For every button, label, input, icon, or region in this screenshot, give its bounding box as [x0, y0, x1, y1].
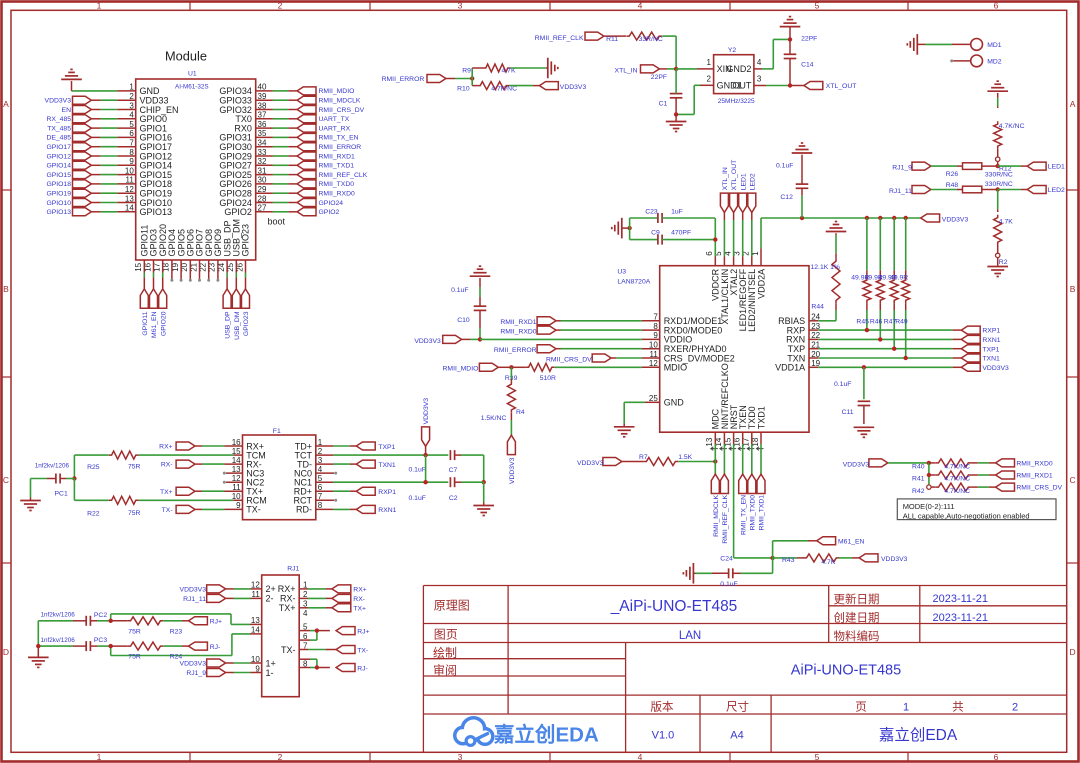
svg-text:4: 4 [757, 58, 762, 67]
wire (U1 pin 35) [256, 136, 297, 138]
svg-text:12.1K 1%: 12.1K 1% [811, 264, 840, 271]
svg-text:R24: R24 [170, 654, 183, 661]
svg-text:1: 1 [903, 702, 909, 714]
svg-text:C9: C9 [651, 230, 660, 237]
unconnected pin 22 (U1) [207, 260, 210, 282]
svg-text:Module: Module [165, 49, 207, 64]
svg-text:MD1: MD1 [987, 42, 1002, 49]
svg-text:0.1uF: 0.1uF [409, 495, 426, 502]
net flag RX+ [159, 442, 195, 451]
svg-text:C7: C7 [449, 467, 458, 474]
svg-text:0.1uF: 0.1uF [451, 287, 468, 294]
svg-text:C11: C11 [842, 409, 854, 416]
svg-text:GPIO13: GPIO13 [140, 207, 173, 217]
net flag GPIO10 [46, 199, 91, 207]
svg-text:VDD2A: VDD2A [756, 269, 766, 299]
wire (U1 pin 7) [91, 146, 135, 148]
resistor R25 75R [87, 451, 242, 471]
svg-text:R22: R22 [87, 511, 100, 518]
unconnected pin 20 (U1) [189, 260, 192, 282]
svg-text:4.7K/NC: 4.7K/NC [944, 476, 970, 483]
svg-text:0.1uF: 0.1uF [720, 581, 737, 588]
wire [734, 556, 775, 560]
wire (U1 pin 11) [91, 183, 135, 185]
svg-text:330R/NC: 330R/NC [985, 181, 1013, 188]
svg-text:VDD3V3: VDD3V3 [560, 84, 587, 91]
svg-text:2023-11-21: 2023-11-21 [933, 593, 988, 605]
svg-text:U1: U1 [188, 71, 197, 78]
svg-text:RX-: RX- [353, 596, 365, 603]
svg-text:13: 13 [705, 437, 714, 446]
unconnected pin 18 (U1) [170, 260, 173, 282]
IC U3 LAN8720A [617, 251, 820, 451]
svg-text:1.5K/NC: 1.5K/NC [481, 415, 507, 422]
net flag RMII_TXD0 [748, 474, 757, 530]
svg-text:RMII_RXD1: RMII_RXD1 [319, 153, 355, 160]
ground (C14 top) [780, 17, 801, 40]
wire [446, 68, 475, 86]
resistor R48 330R/NC [931, 181, 1013, 193]
svg-text:GND: GND [664, 398, 685, 408]
svg-text:RMII_TXD0: RMII_TXD0 [319, 181, 355, 188]
svg-text:1: 1 [97, 752, 102, 762]
svg-text:GPIO17: GPIO17 [46, 144, 71, 151]
wire (U1 pin 14) [91, 211, 135, 213]
net flag RMII_RXD1 [996, 471, 1053, 480]
wire [888, 461, 931, 487]
module title [165, 49, 207, 64]
svg-text:LED2: LED2 [749, 173, 756, 190]
svg-text:RX_485: RX_485 [46, 116, 71, 123]
svg-text:RMII_CRS_DV: RMII_CRS_DV [546, 356, 592, 363]
svg-text:RJ1_11: RJ1_11 [183, 596, 206, 603]
wire (U3 pin7) [556, 320, 660, 322]
resistor R40 4.7K/NC [912, 459, 996, 471]
svg-text:6: 6 [705, 251, 714, 256]
net flag TX- [162, 505, 195, 514]
wire (U3 pin 16) [742, 432, 744, 474]
net flag TX_485 [47, 124, 91, 132]
wire (RJ1 pin5/6) [299, 628, 330, 640]
svg-text:TX-: TX- [162, 507, 173, 514]
net flag TX- (RJ1) [336, 646, 368, 655]
net flag RJ1_11 [889, 186, 931, 195]
capacitor C7 0.1uF [409, 450, 484, 474]
svg-text:VDD3V3: VDD3V3 [577, 460, 604, 467]
net flag LED1 [1027, 162, 1065, 171]
wire (Y2 pin3) [754, 83, 804, 87]
net flag LED1 [739, 173, 748, 212]
net flag GPIO24 [297, 199, 343, 207]
svg-text:GPIO11: GPIO11 [142, 311, 149, 335]
svg-text:TX-: TX- [357, 647, 368, 654]
svg-text:嘉立创EDA: 嘉立创EDA [493, 723, 599, 747]
svg-text:R4: R4 [516, 409, 525, 416]
svg-text:VDD3V3: VDD3V3 [982, 365, 1009, 372]
svg-text:R2: R2 [999, 259, 1008, 266]
svg-text:RMII_TX_EN: RMII_TX_EN [740, 495, 747, 535]
svg-text:RD-: RD- [296, 505, 312, 515]
ground (C10 top) [470, 266, 491, 284]
ground (PC2/PC3) [28, 646, 49, 667]
svg-text:TX+: TX+ [353, 605, 366, 612]
net flag GPIO18 [46, 180, 91, 188]
svg-text:TXD1: TXD1 [756, 406, 766, 429]
net flag RXP1 [356, 487, 396, 496]
svg-text:ALL capable,Auto-negotiation e: ALL capable,Auto-negotiation enabled [903, 511, 1030, 520]
svg-text:VDD3V3: VDD3V3 [180, 587, 207, 594]
net flag RMII_TXD0 [297, 180, 354, 188]
net flag GPIO13 [46, 208, 91, 216]
svg-text:V1.0: V1.0 [652, 730, 675, 742]
svg-text:1: 1 [707, 58, 712, 67]
net flag RMII_TX_EN [297, 133, 359, 141]
svg-text:R40: R40 [912, 464, 925, 471]
ground (C11) [854, 427, 875, 437]
wire [676, 68, 714, 70]
wire [835, 235, 837, 253]
ground (R12 top) [987, 81, 1008, 98]
wire [226, 588, 262, 590]
net flag RMII_TXD1 [297, 161, 354, 169]
svg-text:GPIO2: GPIO2 [224, 207, 252, 217]
svg-text:R9: R9 [462, 67, 471, 74]
resistor R12 4.7K/NC [994, 98, 1025, 173]
note MODE(0-2) box [897, 499, 1056, 520]
resistor R22 75R [87, 496, 242, 517]
wire (U1 pin 9) [91, 164, 135, 166]
svg-text:D: D [3, 647, 9, 657]
capacitor PC2 1nf2kv/1206 [38, 612, 110, 626]
svg-text:F1: F1 [273, 428, 281, 435]
wire (RJ1 pin3) [299, 607, 332, 609]
svg-text:4: 4 [638, 752, 643, 762]
wire [426, 455, 484, 482]
svg-text:RJ1_9: RJ1_9 [186, 670, 206, 677]
wire (U1 pin 39) [256, 99, 297, 101]
svg-text:版本: 版本 [651, 700, 674, 714]
svg-text:C10: C10 [457, 317, 470, 324]
net flag XTL_IN [720, 167, 729, 212]
svg-text:页: 页 [855, 702, 867, 714]
wire (U3 pin 17) [751, 432, 753, 474]
wire [316, 463, 357, 465]
svg-text:R11: R11 [606, 36, 618, 43]
svg-text:USB_DP: USB_DP [225, 311, 232, 339]
svg-text:TXN1: TXN1 [378, 462, 396, 469]
svg-text:75R: 75R [128, 510, 141, 517]
wire [195, 445, 243, 447]
svg-text:XTL_OUT: XTL_OUT [826, 83, 857, 90]
wire (U1 pin 6) [91, 136, 135, 138]
net flag RJ+ (RJ1) [336, 627, 369, 636]
svg-text:RXN1: RXN1 [378, 507, 396, 514]
net flag TXP1 [356, 442, 395, 451]
net flag RJ- (R24) [189, 642, 221, 651]
resistor R44 12.1K 1% [811, 253, 841, 310]
svg-text:RMII_TXD1: RMII_TXD1 [319, 163, 355, 170]
net flag GPIO23 [242, 289, 251, 336]
resistor R7 1.5K [622, 454, 693, 466]
net flag RMII_TXD1 [757, 474, 766, 530]
svg-text:4: 4 [303, 609, 308, 618]
svg-text:VDD3V3: VDD3V3 [942, 216, 969, 223]
svg-text:4.7K: 4.7K [821, 559, 835, 566]
net flag VDD3V3 (R10) [539, 82, 586, 92]
svg-text:RJ-: RJ- [357, 665, 368, 672]
svg-text:2: 2 [278, 752, 283, 762]
wire [511, 67, 546, 69]
svg-text:49.9R: 49.9R [890, 274, 908, 281]
svg-text:1nf2kv/1206: 1nf2kv/1206 [41, 612, 76, 619]
svg-text:4.7K/NC: 4.7K/NC [999, 123, 1025, 130]
ground (PC1) [20, 479, 41, 511]
net flag M61_EN [150, 289, 159, 338]
wire [195, 463, 243, 465]
svg-text:M61_EN: M61_EN [151, 311, 158, 338]
svg-text:A4: A4 [730, 730, 743, 742]
resistor R8 510R [498, 363, 556, 382]
svg-text:3: 3 [757, 74, 762, 83]
wire (Y2 pin2 to gnd) [674, 85, 714, 116]
svg-text:XTL_IN: XTL_IN [722, 167, 729, 190]
wire [195, 508, 243, 510]
net flag GPIO11 [140, 289, 149, 336]
resistor R43 4.7K [773, 554, 840, 566]
wire [72, 455, 109, 481]
svg-text:R42: R42 [912, 488, 925, 495]
wire [195, 490, 243, 492]
svg-text:5: 5 [815, 1, 820, 11]
unconnected pin NC2 [223, 481, 243, 484]
svg-text:RXP1: RXP1 [982, 328, 1000, 335]
wire (U1 pin 17) [162, 260, 164, 289]
wire (U3 pin10) [556, 348, 660, 350]
svg-text:C23: C23 [645, 209, 658, 216]
svg-text:VDD3V3: VDD3V3 [881, 556, 908, 563]
net flag RJ1_9 [186, 669, 225, 678]
svg-text:GPIO23: GPIO23 [241, 224, 251, 257]
wire (U1 pin 25) [235, 260, 237, 289]
label boot [268, 217, 286, 227]
wire (U3 pin12) [555, 366, 660, 368]
crystal Y2 25MHz/3225 [707, 47, 762, 105]
svg-text:R41: R41 [912, 476, 925, 483]
net flag XTL_OUT [804, 82, 856, 91]
net flag RMII_REF_CLK [297, 171, 368, 179]
svg-text:C: C [1070, 475, 1076, 485]
net flag XTL_OUT [730, 160, 739, 213]
net flag RMII_CRS_DV [546, 354, 611, 363]
svg-text:330R/NC: 330R/NC [985, 171, 1013, 178]
wire (U3 pin1 VDD2A) [760, 218, 762, 266]
svg-text:R46: R46 [870, 319, 883, 326]
svg-text:3: 3 [458, 752, 463, 762]
svg-text:绘制: 绘制 [433, 645, 457, 660]
junction [109, 619, 113, 623]
svg-text:GPIO12: GPIO12 [46, 153, 71, 160]
svg-text:VDD3V3: VDD3V3 [180, 661, 207, 668]
svg-text:RMII_RXD0: RMII_RXD0 [1016, 461, 1052, 468]
resistor R46 49.9R [865, 218, 885, 339]
net flag RMII_MDCLK [711, 474, 720, 537]
junction [109, 644, 113, 648]
svg-text:1uF: 1uF [671, 209, 683, 216]
svg-text:VDD3V3: VDD3V3 [423, 398, 430, 425]
svg-text:1nf2kv/1206: 1nf2kv/1206 [35, 462, 70, 469]
wire [659, 67, 678, 71]
svg-text:boot: boot [268, 217, 286, 227]
wire (U1 pin 26) [245, 260, 247, 289]
svg-text:1+: 1+ [266, 658, 276, 668]
connector pin MD2 [971, 55, 1002, 67]
svg-text:C14: C14 [801, 62, 814, 69]
svg-text:GPIO19: GPIO19 [46, 191, 71, 198]
wire (U3 pin 22) [809, 337, 961, 341]
net flag RMII_RXD0 [297, 189, 355, 197]
svg-text:5: 5 [815, 752, 820, 762]
net flag XTL_IN [615, 65, 660, 75]
svg-text:RMII_ERROR: RMII_ERROR [382, 76, 425, 83]
svg-text:RMII_RXD1: RMII_RXD1 [1016, 473, 1052, 480]
wire [316, 490, 357, 492]
wire [226, 662, 262, 664]
wire [839, 557, 859, 559]
svg-text:XTL_IN: XTL_IN [615, 67, 638, 74]
unconnected pin 21 (U1) [198, 260, 201, 282]
wire (U3 pin 4) [733, 213, 735, 266]
svg-text:审阅: 审阅 [433, 663, 457, 678]
wire (U3 pin6 VDDCR) [713, 218, 717, 266]
svg-text:_AiPi-UNO-ET485: _AiPi-UNO-ET485 [610, 598, 738, 615]
svg-text:2+: 2+ [266, 584, 276, 594]
svg-text:RJ+: RJ+ [210, 619, 222, 626]
svg-text:U3: U3 [617, 269, 626, 276]
svg-text:AI-M61-32S: AI-M61-32S [175, 84, 209, 91]
svg-text:更新日期: 更新日期 [834, 592, 880, 606]
wire (U1 pin 27) [256, 211, 297, 213]
svg-text:RXN1: RXN1 [982, 337, 1000, 344]
svg-text:B: B [3, 284, 9, 294]
net flag GPIO2 [297, 208, 339, 216]
transformer F1 [232, 428, 323, 520]
ground (R9) [546, 58, 558, 79]
wire (U1 pin 40) [256, 90, 297, 92]
ground (U3 GND) [614, 424, 635, 437]
svg-text:470PF: 470PF [671, 230, 691, 237]
wire (RJ1 pin8) [299, 659, 330, 670]
svg-text:R43: R43 [782, 557, 795, 564]
svg-text:GPIO2: GPIO2 [319, 209, 340, 216]
svg-text:TXP1: TXP1 [982, 346, 999, 353]
svg-text:嘉立创EDA: 嘉立创EDA [879, 726, 958, 744]
svg-text:RMII_REF_CLK: RMII_REF_CLK [722, 494, 729, 543]
svg-text:R45: R45 [856, 319, 869, 326]
svg-text:RMII_MDIO: RMII_MDIO [319, 88, 355, 95]
wire [226, 597, 262, 599]
unconnected pin NC3 [223, 472, 243, 475]
wire [316, 445, 357, 447]
net flag GPIO20 [159, 289, 168, 336]
svg-text:TXN1: TXN1 [982, 356, 1000, 363]
svg-text:LED1: LED1 [740, 173, 747, 190]
IC U1 AI-M61-32S [125, 71, 267, 272]
wire (U1 pin 4) [91, 118, 135, 120]
wire (NC1) [316, 480, 486, 484]
svg-text:RMII_REF_CLK: RMII_REF_CLK [535, 35, 584, 42]
net flag RMII_CRS_DV [297, 106, 365, 114]
wire (U1 pin 29) [256, 192, 297, 194]
svg-text:RX-: RX- [161, 462, 173, 469]
svg-text:RMII_CRS_DV: RMII_CRS_DV [1016, 485, 1062, 492]
net flag TXP1 [961, 345, 999, 354]
wire (U1 pin 32) [256, 164, 297, 166]
wire (U1 pin 12) [91, 192, 135, 194]
svg-text:RMII_TX_EN: RMII_TX_EN [319, 135, 359, 142]
wire (U3 pin 5) [723, 213, 725, 266]
svg-text:RMII_RXD1: RMII_RXD1 [500, 319, 536, 326]
svg-text:尺寸: 尺寸 [726, 700, 749, 714]
title block [423, 586, 1066, 753]
svg-text:TX-: TX- [246, 505, 261, 515]
svg-text:6: 6 [994, 1, 999, 11]
svg-text:GPIO20: GPIO20 [160, 311, 167, 336]
svg-text:RMII_TXD1: RMII_TXD1 [759, 495, 766, 531]
wire (U1 pin 37) [256, 118, 297, 120]
svg-text:1.5K: 1.5K [678, 454, 692, 461]
wire (U1 pin 24) [226, 260, 228, 289]
svg-text:4.7K/NC: 4.7K/NC [491, 85, 517, 92]
svg-text:A: A [3, 99, 9, 109]
net flag TXN1 [356, 460, 396, 469]
svg-text:6: 6 [994, 752, 999, 762]
svg-text:4: 4 [638, 1, 643, 11]
ground (C12 top) [792, 143, 813, 160]
net flag RMII_TX_EN [739, 474, 748, 535]
ground (MD1) [907, 34, 917, 55]
junction [996, 164, 1000, 168]
ground (C2/C7) [473, 482, 494, 515]
svg-text:75R: 75R [128, 628, 141, 635]
ground (R2) [987, 258, 1008, 277]
net flag RMII_RXD0 [500, 326, 556, 335]
wire (TCT) [316, 453, 449, 457]
svg-text:R26: R26 [946, 171, 959, 178]
net flag VDD3V3 [961, 363, 1009, 372]
svg-text:R49: R49 [895, 319, 908, 326]
wire [950, 59, 971, 62]
svg-text:3: 3 [458, 1, 463, 11]
svg-text:510R: 510R [540, 375, 556, 382]
net flag RXN1 [356, 505, 396, 514]
ground (R44) [826, 222, 847, 235]
wire [629, 218, 631, 240]
net flag RX_485 [46, 115, 91, 123]
net flag RMII_REF_CLK [720, 474, 729, 544]
svg-text:GPIO24: GPIO24 [319, 200, 344, 207]
wire (RBIAS) [809, 310, 836, 321]
svg-text:M61_EN: M61_EN [838, 539, 865, 546]
svg-text:LED2: LED2 [1048, 187, 1065, 194]
svg-text:RJ1: RJ1 [287, 565, 299, 572]
net flag UART_TX [297, 115, 350, 123]
net flag VDD3V3 (rail) [921, 214, 969, 223]
wire (U3 pin 21) [809, 347, 961, 351]
wire [998, 189, 1027, 191]
net flag VDD3V3 (RJ1 pin10) [180, 659, 226, 668]
svg-text:Y2: Y2 [728, 47, 737, 54]
wire (RJ1 pin1) [299, 588, 332, 590]
